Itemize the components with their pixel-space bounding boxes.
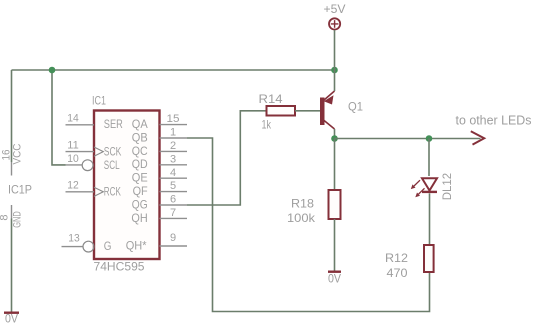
svg-text:0V: 0V bbox=[5, 311, 18, 325]
pin 3 QD bbox=[132, 153, 187, 171]
pin 8 GND bbox=[11, 205, 13, 219]
svg-text:14: 14 bbox=[67, 113, 79, 125]
svg-text:VCC: VCC bbox=[12, 143, 24, 164]
pin 12 RCK bbox=[66, 180, 121, 199]
pin 9 QH* bbox=[126, 232, 187, 252]
svg-text:QF: QF bbox=[133, 184, 148, 198]
svg-text:QB: QB bbox=[132, 130, 148, 144]
svg-text:10: 10 bbox=[67, 153, 79, 165]
wire collector pin bbox=[334, 129, 336, 139]
svg-text:6: 6 bbox=[170, 194, 176, 206]
IC1P power part bbox=[0, 143, 32, 227]
net arrow to other LEDs bbox=[456, 113, 532, 144]
svg-text:QH: QH bbox=[131, 211, 147, 225]
svg-text:13: 13 bbox=[68, 233, 80, 245]
resistor R18 bbox=[287, 190, 341, 225]
wire LED branch top bbox=[428, 139, 430, 177]
svg-text:QC: QC bbox=[132, 144, 148, 158]
wire QG net bbox=[187, 111, 267, 205]
IC1 74HC595 box bbox=[92, 94, 160, 274]
svg-text:1: 1 bbox=[170, 127, 176, 139]
svg-text:4: 4 bbox=[170, 167, 176, 179]
svg-text:12: 12 bbox=[67, 180, 79, 192]
wire SCL branch bbox=[52, 70, 66, 165]
svg-text:1k: 1k bbox=[262, 118, 272, 132]
wire R14 to base bbox=[295, 110, 320, 112]
wire +5V pin bbox=[334, 30, 336, 70]
pin 13 G bbox=[62, 233, 112, 253]
svg-text:3: 3 bbox=[170, 153, 176, 165]
pin 6 QG bbox=[132, 194, 187, 212]
svg-text:GND: GND bbox=[12, 211, 24, 228]
junction D bbox=[426, 135, 433, 142]
svg-text:100k: 100k bbox=[287, 211, 316, 225]
transistor Q1 bbox=[320, 91, 363, 129]
pin 16 VCC bbox=[11, 162, 13, 176]
svg-text:7: 7 bbox=[170, 207, 176, 219]
svg-text:15: 15 bbox=[167, 113, 180, 125]
pin 10 SCL bbox=[66, 153, 120, 172]
svg-text:9: 9 bbox=[170, 232, 176, 244]
svg-text:5: 5 bbox=[170, 180, 176, 192]
pin 2 QC bbox=[132, 140, 187, 158]
svg-text:8: 8 bbox=[0, 214, 11, 220]
pin 7 QH bbox=[131, 207, 187, 225]
svg-text:74HC595: 74HC595 bbox=[94, 260, 145, 274]
svg-text:QE: QE bbox=[132, 171, 148, 185]
wire collector rail bbox=[335, 138, 481, 140]
svg-text:IC1: IC1 bbox=[92, 94, 106, 108]
svg-text:470: 470 bbox=[387, 266, 408, 280]
wire top +5V rail bbox=[12, 69, 335, 71]
resistor R12 bbox=[385, 245, 434, 280]
svg-text:DL12: DL12 bbox=[440, 173, 454, 201]
wire QB net bbox=[187, 138, 430, 312]
wire GND drop bbox=[11, 219, 13, 312]
pin 5 QF bbox=[133, 180, 187, 198]
svg-text:QA: QA bbox=[132, 117, 148, 131]
svg-text:to other LEDs: to other LEDs bbox=[456, 113, 532, 127]
pin 11 SCK bbox=[66, 139, 122, 158]
wire left VCC drop bbox=[11, 70, 13, 162]
junction B bbox=[331, 67, 338, 74]
pin 4 QE bbox=[132, 167, 187, 185]
resistor R14 bbox=[259, 92, 296, 132]
wire R18 to ground bbox=[334, 219, 336, 271]
svg-text:G: G bbox=[104, 239, 112, 253]
LED DL12 bbox=[411, 173, 454, 201]
svg-text:RCK: RCK bbox=[104, 185, 121, 199]
svg-text:SCK: SCK bbox=[104, 144, 122, 158]
svg-text:2: 2 bbox=[170, 140, 176, 152]
ground 0V under R18 bbox=[328, 271, 341, 286]
pin 1 QB bbox=[132, 127, 187, 145]
power +5V bbox=[324, 2, 346, 30]
wire emitter pin bbox=[334, 70, 336, 91]
junction A bbox=[49, 67, 56, 74]
svg-text:QH*: QH* bbox=[126, 239, 147, 253]
wire LED to R12 bbox=[429, 193, 431, 245]
svg-text:SER: SER bbox=[104, 117, 123, 131]
svg-text:R12: R12 bbox=[385, 251, 408, 265]
svg-text:QG: QG bbox=[132, 197, 148, 211]
svg-text:QD: QD bbox=[132, 157, 148, 171]
svg-text:Q1: Q1 bbox=[348, 100, 363, 114]
svg-text:+5V: +5V bbox=[324, 2, 346, 16]
pin 15 QA bbox=[132, 113, 187, 131]
ground 0V left bbox=[4, 311, 19, 325]
svg-text:11: 11 bbox=[67, 139, 79, 151]
svg-text:0V: 0V bbox=[328, 272, 341, 286]
svg-text:IC1P: IC1P bbox=[8, 183, 32, 197]
svg-text:R18: R18 bbox=[291, 197, 314, 211]
svg-text:R14: R14 bbox=[259, 92, 283, 106]
pin 14 SER bbox=[66, 113, 124, 131]
wire junction to R18 bbox=[334, 139, 336, 191]
svg-text:SCL: SCL bbox=[104, 158, 120, 172]
junction C bbox=[331, 135, 338, 142]
